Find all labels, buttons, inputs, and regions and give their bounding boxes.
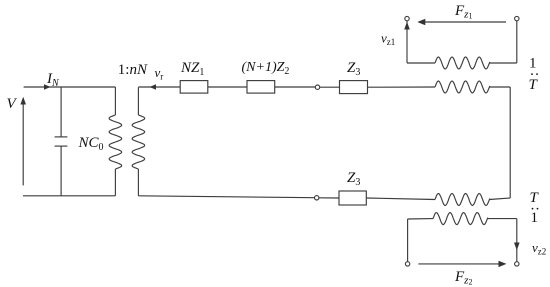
- current arrow I_N: [44, 84, 51, 90]
- inductor coil bottom row: [435, 194, 490, 206]
- svg-text:(N+1)Z2: (N+1)Z2: [242, 60, 290, 77]
- lower pickup loop: top wire left: [408, 218, 433, 220]
- svg-text:IN: IN: [46, 71, 60, 89]
- upper loop bottom wire left: [407, 62, 435, 64]
- voltage arrow V: [22, 103, 24, 185]
- lower loop right wire with v_z2 arrow: [516, 219, 518, 262]
- lower loop top wire right: [487, 218, 516, 220]
- upper loop coil: [435, 57, 490, 69]
- resistor Z3 top: [340, 81, 368, 94]
- right rail wire: [509, 87, 511, 198]
- wire coil to right rail: [489, 86, 510, 88]
- svg-text:Z3: Z3: [347, 170, 360, 188]
- node terminal circle top: [315, 85, 319, 89]
- wire node to Z3 top: [320, 86, 340, 88]
- svg-text:vr: vr: [155, 65, 164, 82]
- wire secondary bottom to node: [138, 196, 314, 198]
- lower loop terminal circle right: [515, 262, 519, 266]
- lower loop left wire: [407, 219, 409, 262]
- resistor (N+1)Z2: [247, 81, 275, 94]
- force arrow F_z1: [419, 21, 506, 23]
- wire input top: [24, 86, 116, 88]
- inductor coil top row: [435, 81, 490, 93]
- upper pickup loop: terminal circle left: [405, 16, 409, 20]
- upper loop left wire with v_z1 arrow: [406, 21, 408, 63]
- wire input bottom: [23, 195, 115, 197]
- node terminal circle bottom: [315, 196, 319, 200]
- svg-text:V: V: [7, 96, 18, 112]
- svg-text:NC0: NC0: [78, 135, 104, 153]
- svg-text:NZ1: NZ1: [180, 60, 204, 78]
- svg-text:1:nN: 1:nN: [118, 62, 148, 78]
- svg-text:Z3: Z3: [347, 60, 360, 78]
- svg-text:Fz2: Fz2: [454, 269, 472, 287]
- wire NZ1 to (N+1)Z2: [208, 86, 247, 88]
- svg-text:vz1: vz1: [381, 31, 395, 48]
- wire secondary to NZ1: [138, 86, 180, 88]
- upper loop terminal circle right: [515, 16, 519, 20]
- wire node to Z3 bottom: [319, 197, 339, 199]
- svg-text:1: 1: [531, 210, 539, 226]
- upper loop bottom wire right: [489, 62, 516, 64]
- force arrow F_z2: [418, 263, 504, 265]
- resistor NZ1: [180, 81, 208, 94]
- capacitor NC0: [60, 87, 62, 137]
- wire Z3 to coil top: [368, 86, 436, 88]
- arrow v_r: [150, 84, 157, 89]
- svg-text:vz2: vz2: [532, 240, 546, 257]
- lower loop terminal circle left: [405, 262, 409, 266]
- transformer primary winding: [114, 87, 116, 115]
- upper loop right wire: [516, 21, 518, 63]
- transformer secondary winding: [137, 87, 139, 115]
- resistor Z3 bottom: [339, 191, 366, 205]
- wire (N+1)Z2 to node: [275, 86, 316, 88]
- wire Z3 to coil bottom row: [366, 198, 435, 200]
- wire rail to bottom coil: [489, 198, 510, 200]
- lower loop coil: [433, 213, 488, 225]
- svg-text:Fz1: Fz1: [454, 3, 472, 21]
